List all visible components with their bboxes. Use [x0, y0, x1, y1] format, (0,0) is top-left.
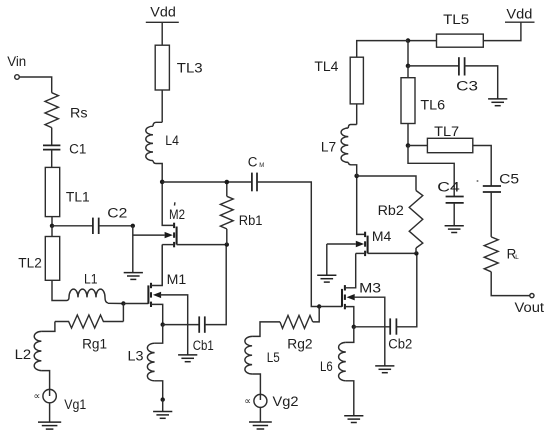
svg-text:L1: L1 [84, 271, 98, 286]
svg-text:Vout: Vout [515, 300, 545, 315]
svg-text:TL3: TL3 [177, 61, 203, 76]
svg-text:M4: M4 [372, 229, 392, 244]
svg-text:TL6: TL6 [420, 98, 445, 113]
svg-text:Rb1: Rb1 [239, 213, 263, 228]
svg-text:L5: L5 [267, 350, 280, 365]
svg-text:L6: L6 [320, 359, 333, 374]
svg-text:M1: M1 [167, 272, 187, 287]
svg-text:Vg2: Vg2 [273, 394, 299, 409]
svg-text:Cb2: Cb2 [388, 336, 412, 351]
svg-text:M3: M3 [359, 281, 381, 296]
svg-text:L: L [515, 254, 519, 261]
svg-text:C1: C1 [69, 141, 86, 156]
svg-text:Vdd: Vdd [506, 7, 532, 22]
svg-text:L3: L3 [128, 349, 144, 364]
svg-text:C2: C2 [107, 206, 127, 221]
svg-text:TL7: TL7 [434, 124, 459, 139]
svg-text:Rb2: Rb2 [378, 203, 404, 218]
svg-text:Rg2: Rg2 [287, 337, 312, 352]
svg-text:C: C [248, 154, 258, 169]
svg-text:TL4: TL4 [314, 59, 339, 74]
svg-text:Cb1: Cb1 [193, 338, 214, 353]
svg-text:Vin: Vin [7, 54, 26, 69]
svg-text:C5: C5 [499, 172, 519, 187]
svg-text:C3: C3 [456, 79, 478, 94]
svg-text:Rg1: Rg1 [82, 336, 107, 351]
svg-text:M2: M2 [169, 207, 185, 222]
svg-text:TL2: TL2 [18, 255, 42, 270]
svg-text:C4: C4 [437, 180, 460, 195]
svg-text:L4: L4 [165, 133, 179, 148]
svg-text:∝: ∝ [244, 396, 251, 407]
svg-text:∝: ∝ [34, 391, 41, 402]
svg-text:L7: L7 [321, 140, 336, 155]
svg-text:M: M [259, 163, 264, 169]
svg-text:TL5: TL5 [443, 12, 469, 27]
svg-text:L2: L2 [15, 347, 32, 362]
svg-text:Vdd: Vdd [150, 5, 176, 20]
svg-text:Rs: Rs [70, 105, 88, 120]
svg-text:Vg1: Vg1 [64, 397, 86, 412]
svg-text:TL1: TL1 [66, 189, 90, 204]
